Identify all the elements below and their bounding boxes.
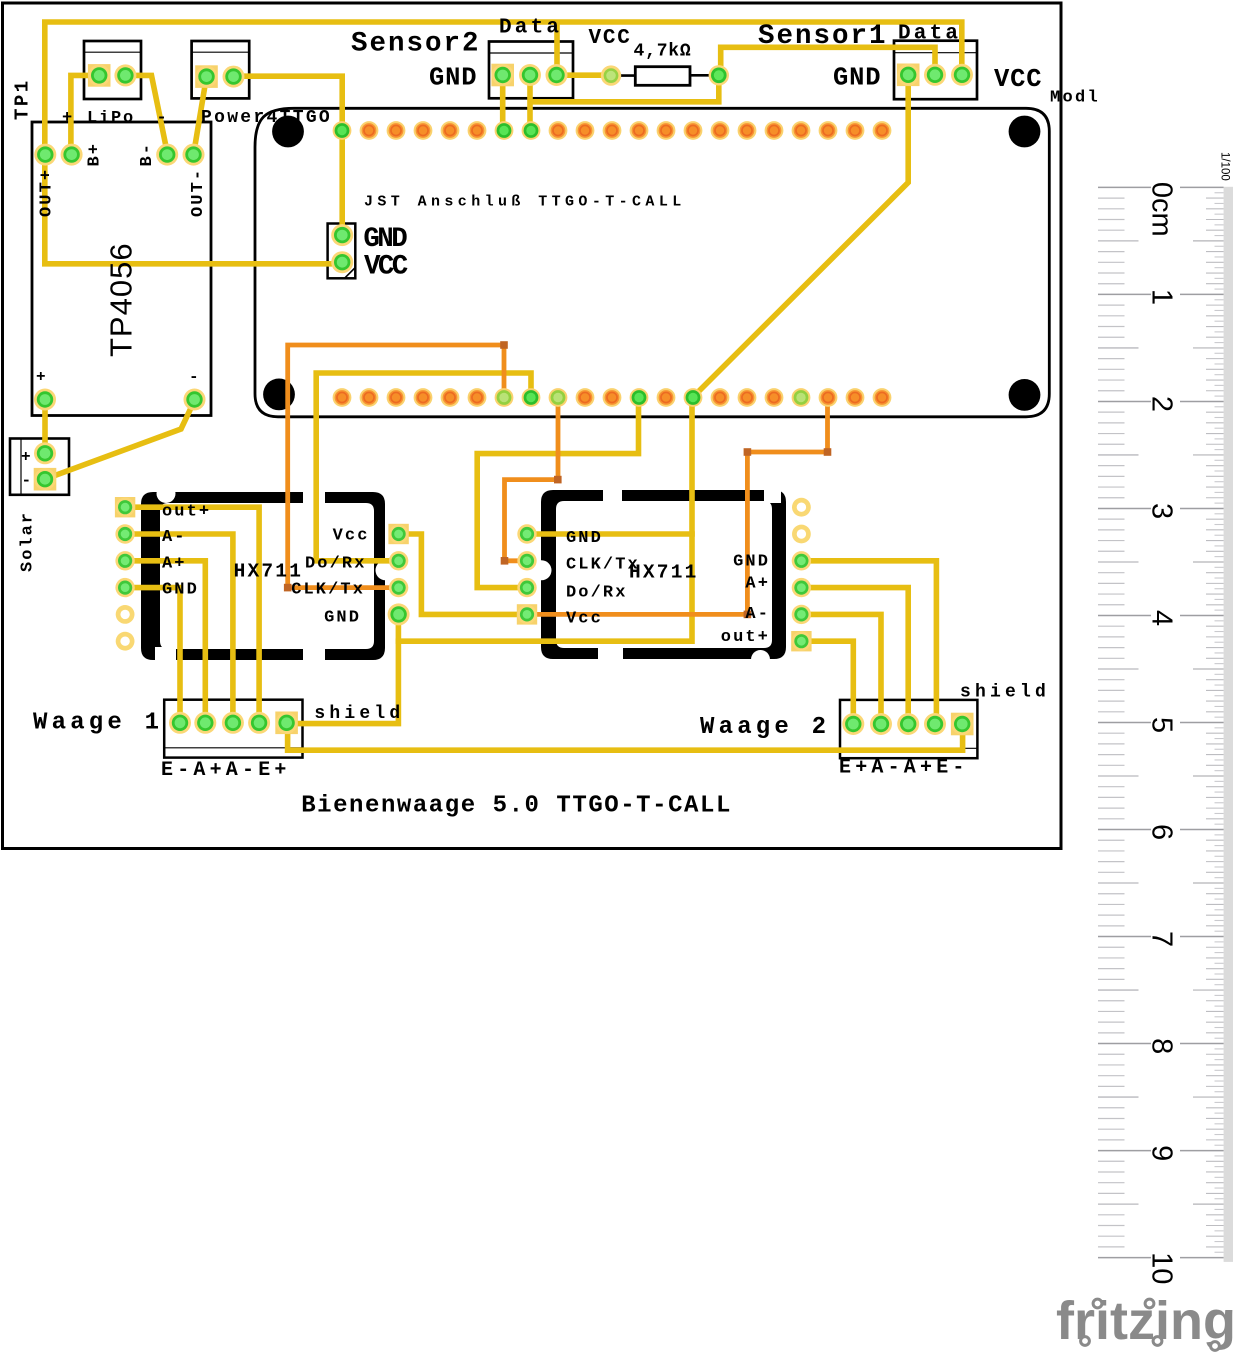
mounting hole top-left — [272, 116, 304, 148]
wire Vcc bridge HX711-1 to HX711-2 — [400, 534, 525, 614]
pad ESP bottom 12 (green) — [630, 388, 649, 407]
wire LiPo pin1 to B+ — [71, 75, 99, 152]
pin TP4056 B+ — [61, 144, 83, 166]
pin Sensor1 pin1 GND — [897, 64, 919, 86]
svg-text:VCC: VCC — [364, 252, 408, 283]
pad ESP top 9 — [549, 121, 568, 140]
svg-text:TP1: TP1 — [12, 78, 34, 120]
svg-text:A+: A+ — [745, 575, 770, 594]
pad ESP bottom 13 — [657, 388, 676, 407]
pad ESP top 14 — [684, 121, 703, 140]
wire Sensor2 pin2 to pad — [527, 77, 533, 131]
pad ESP bottom 5 — [441, 388, 460, 407]
pad ESP top 4 — [414, 121, 433, 140]
pin LiPo pin2 — [114, 64, 136, 86]
junction j5 — [744, 448, 752, 456]
svg-text:Waage 2: Waage 2 — [700, 714, 830, 741]
pad ESP top 12 — [630, 121, 649, 140]
pin Waage2 pin1 — [842, 713, 864, 735]
pad R1 right — [709, 65, 729, 85]
ruler — [1098, 152, 1233, 1284]
junction j4 — [501, 557, 509, 565]
svg-text:out+: out+ — [721, 628, 770, 647]
pad ESP top 20 — [846, 121, 865, 140]
pad square Solar minus — [34, 468, 57, 491]
pin Waage2 pin5 — [951, 713, 973, 735]
pin TP4056 plus — [34, 389, 56, 411]
pad HX711-2 CLK/Tx — [517, 551, 536, 570]
svg-text:0cm: 0cm — [1145, 182, 1177, 237]
pad ESP bottom 17 — [765, 388, 784, 407]
wire HX711-1 GND down to Waage1 shield — [288, 616, 398, 724]
pad square HX1 out+ — [115, 497, 135, 517]
connector Power — [192, 41, 250, 98]
pin Waage1 pin2 — [194, 712, 216, 734]
svg-text:10: 10 — [1145, 1252, 1177, 1284]
pad HX711-2 GND out — [792, 551, 811, 570]
pad ESP top 16 — [738, 121, 757, 140]
wire HX711-2 out+ to Waage2 pin1 — [802, 641, 853, 722]
pad square HX2 Vcc — [517, 604, 537, 624]
resistor R1 body — [635, 67, 690, 86]
pin Power pin2 — [223, 66, 245, 88]
connector Solar — [10, 439, 69, 495]
pin Sensor2 pin2 Data — [519, 64, 541, 86]
mounting hole bottom-left — [263, 379, 295, 411]
pin Waage1 pin3 — [222, 712, 244, 734]
pad ESP top 10 — [576, 121, 595, 140]
svg-text:Power4TTGO: Power4TTGO — [201, 108, 332, 128]
pin Waage2 pin4 — [924, 713, 946, 735]
connector Sensor2 — [489, 42, 573, 99]
svg-text:GND: GND — [162, 581, 199, 600]
wire Power pin2 to JST GND via pad — [235, 76, 342, 235]
wire HX711-1 out+ to Waage1 pin4 — [126, 507, 259, 721]
pad HX711-1 GND — [115, 578, 134, 597]
wire data2 resistor-right upper run to Sensor1 pin2 — [721, 47, 935, 75]
pad square Power pin1 — [195, 65, 218, 88]
pin Sensor2 pin3 VCC — [546, 64, 568, 86]
pin Sensor2 pin1 GND — [492, 64, 514, 86]
fritzing logo — [1056, 1291, 1233, 1351]
wire Sensor2 pin1 to pad — [500, 77, 506, 131]
pad square Waage1 pin5 — [275, 712, 298, 735]
pin Waage1 pin1 — [169, 712, 191, 734]
wire HX711-1 A- to Waage1 pin3 — [126, 534, 233, 721]
svg-text:E-A+A-E+: E-A+A-E+ — [161, 759, 291, 782]
junction j1 — [500, 341, 508, 349]
resistor R1 4.7k leads — [618, 74, 716, 77]
svg-text:3: 3 — [1145, 503, 1177, 519]
pad ESP top 17 — [765, 121, 784, 140]
pad ESP top 1 (green) — [333, 121, 352, 140]
pad square HX1 Vcc — [388, 524, 408, 544]
wire HX711-2 GND row — [529, 531, 692, 537]
pad ESP bottom 21 — [873, 388, 892, 407]
wire VCC top: TP1/OUT+ to Sensor1 pin3 — [45, 22, 962, 264]
svg-text:-: - — [22, 472, 32, 490]
wire HX711-2 GND to Waage2 pin4 — [802, 561, 936, 722]
wire data2 resistor-right lower run — [531, 75, 719, 102]
wire LiPo pin2 to B- — [125, 75, 167, 152]
svg-text:GND: GND — [833, 63, 881, 92]
pin Power pin1 — [196, 66, 218, 88]
pad ESP top 19 — [819, 121, 838, 140]
connector LiPo — [84, 41, 141, 99]
connector Waage 2 — [840, 700, 977, 758]
connector Sensor1 — [894, 41, 977, 99]
pad square LiPo pin1 — [88, 64, 111, 87]
svg-text:4,7kΩ: 4,7kΩ — [634, 41, 692, 61]
svg-text:Sensor1: Sensor1 — [758, 21, 888, 52]
pad HX711-2 GND — [517, 524, 536, 543]
pin Solar minus — [34, 468, 56, 490]
svg-text:-: - — [157, 109, 167, 128]
pad ESP bottom 16 — [738, 388, 757, 407]
svg-text:E+A-A+E-: E+A-A+E- — [839, 756, 969, 779]
mounting hole top-right — [1009, 116, 1041, 148]
pad ESP bottom 20 — [846, 388, 865, 407]
svg-text:VCC: VCC — [994, 65, 1042, 94]
pin Waage1 pin4 — [248, 712, 270, 734]
pad HX711-2 nc2 — [792, 525, 811, 544]
pad square Sensor2 pin1 — [491, 64, 514, 87]
svg-text:B-: B- — [138, 142, 157, 167]
pad ESP bottom 6 — [468, 388, 487, 407]
pad ESP top 3 — [387, 121, 406, 140]
pad square Waage2 pin5 — [951, 713, 974, 736]
pad HX711-1 A+ — [115, 551, 134, 570]
pad HX711-1 A- — [115, 524, 134, 543]
svg-text:2: 2 — [1145, 396, 1177, 412]
svg-text:5: 5 — [1145, 717, 1177, 733]
svg-text:Solar: Solar — [19, 511, 38, 572]
pad ESP top 2 — [360, 121, 379, 140]
junction j2 — [284, 584, 292, 592]
svg-text:out+: out+ — [162, 503, 211, 522]
svg-text:+: + — [62, 109, 72, 128]
pad HX711-1 nc2 — [116, 632, 135, 651]
svg-text:6: 6 — [1145, 824, 1177, 840]
junction j6 — [824, 448, 832, 456]
svg-text:GND: GND — [324, 608, 361, 627]
svg-text:Vcc: Vcc — [333, 527, 370, 546]
connector JST — [328, 224, 356, 279]
svg-text:shield: shield — [314, 704, 404, 724]
pad ESP top 8 (green) — [522, 121, 541, 140]
pin Waage2 pin2 — [870, 713, 892, 735]
pad ESP bottom 1 — [333, 388, 352, 407]
wire GND pad13 vertical to junction — [398, 396, 692, 641]
pad R1 left — [601, 65, 621, 85]
wire Sensor2 pin3 to resistor — [557, 72, 612, 78]
svg-text:shield: shield — [960, 682, 1050, 702]
junction j7 — [744, 611, 752, 619]
svg-text:A-: A- — [162, 528, 187, 547]
pad ESP top 15 — [711, 121, 730, 140]
pad square Sensor1 pin1 — [897, 64, 920, 87]
pin Waage1 pin5 — [276, 712, 298, 734]
svg-text:Vcc: Vcc — [566, 610, 603, 629]
wire TP4056 plus to Solar plus — [42, 400, 48, 454]
svg-text:Waage 1: Waage 1 — [33, 710, 163, 737]
pad ESP bottom 10 — [576, 388, 595, 407]
pad HX711-2 A- — [792, 605, 811, 624]
pin Solar plus — [34, 442, 56, 464]
wire Power pin1 to OUT- — [194, 77, 207, 155]
HX711 module 1 frame — [141, 484, 396, 663]
svg-text:GND: GND — [566, 529, 603, 548]
pad ESP bottom 4 — [414, 388, 433, 407]
svg-text:OUT+: OUT+ — [37, 168, 56, 217]
wire Sensor1 pin1 diagonal to pad — [692, 76, 908, 398]
pin JST GND — [331, 224, 353, 246]
wire orange pad6 to HX711-1 CLK/Tx — [288, 345, 504, 588]
svg-text:7: 7 — [1145, 931, 1177, 947]
pin Waage2 pin3 — [897, 713, 919, 735]
pad ESP top 5 — [441, 121, 460, 140]
wire pad7 to HX711-1 DO/Rx — [316, 373, 531, 561]
connector Waage 1 — [164, 700, 302, 758]
pin TP4056 OUT+ — [34, 144, 56, 166]
svg-text:Data: Data — [499, 17, 562, 40]
svg-text:Do/Rx: Do/Rx — [305, 554, 367, 573]
pad ESP top 11 — [603, 121, 622, 140]
pin JST VCC — [331, 251, 353, 273]
pin LiPo pin1 — [88, 64, 110, 86]
pad HX711-1 out+ — [115, 498, 134, 517]
pin TP4056 OUT- — [183, 144, 205, 166]
svg-text:GND: GND — [733, 552, 770, 571]
svg-text:HX711: HX711 — [234, 561, 304, 583]
junction j3 — [554, 476, 562, 484]
border frame — [3, 3, 1062, 849]
wire orange pad18 to HX711-2 Vcc — [527, 396, 828, 614]
pad HX711-2 DO/Rx — [517, 578, 536, 597]
pad ESP bottom 7 (green) — [495, 388, 514, 407]
svg-text:4: 4 — [1145, 610, 1177, 626]
svg-text:1/100: 1/100 — [1219, 152, 1231, 181]
pad ESP bottom 14 (green) — [684, 388, 703, 407]
svg-text:8: 8 — [1145, 1038, 1177, 1054]
pad ESP bottom 19 — [819, 388, 838, 407]
pad HX711-2 Vcc — [517, 605, 536, 624]
pad ESP bottom 15 — [711, 388, 730, 407]
module TP4056 — [32, 122, 211, 416]
svg-text:Data: Data — [898, 23, 961, 46]
TTGO-T-CALL board outline U1 — [255, 108, 1049, 417]
svg-text:LiPo: LiPo — [87, 109, 135, 128]
wire pad11 to HX711-2 DO/Rx — [477, 396, 638, 588]
svg-text:A+: A+ — [162, 555, 187, 574]
wire VCC drop to Sensor2 pin3 — [554, 25, 560, 73]
pad ESP bottom 11 — [603, 388, 622, 407]
svg-text:+: + — [36, 368, 46, 386]
pin Sensor1 pin3 VCC — [951, 64, 973, 86]
pad ESP bottom 18 (green) — [792, 388, 811, 407]
svg-text:Sensor2: Sensor2 — [351, 29, 481, 60]
pad ESP bottom 8 (green) — [522, 388, 541, 407]
svg-text:GND: GND — [363, 224, 407, 255]
pad HX711-1 Vcc — [389, 524, 408, 543]
wire HX711-2 A- to Waage2 pin2 — [802, 614, 881, 722]
svg-text:Do/Rx: Do/Rx — [566, 583, 628, 602]
pad HX711-1 CLK/Tx — [389, 578, 408, 597]
pad ESP bottom 9 (green) — [549, 388, 568, 407]
svg-text:GND: GND — [429, 64, 477, 93]
svg-text:+: + — [21, 448, 31, 466]
pad ESP bottom 3 — [387, 388, 406, 407]
wire TP4056 minus to Solar minus — [45, 401, 195, 480]
wire HX711-1 A+ to Waage1 pin2 — [126, 561, 205, 721]
pad ESP bottom 2 — [360, 388, 379, 407]
svg-text:CLK/Tx: CLK/Tx — [291, 581, 365, 600]
svg-text:1: 1 — [1145, 289, 1177, 305]
svg-text:B+: B+ — [86, 142, 105, 167]
wire shield bus Waage1 to Waage2 — [288, 724, 963, 750]
mounting hole bottom-right — [1009, 379, 1041, 411]
pad ESP top 13 — [657, 121, 676, 140]
pad HX711-1 DO/Rx — [389, 551, 408, 570]
svg-text:VCC: VCC — [589, 27, 632, 50]
wire HX711-2 A+ to Waage2 pin3 — [802, 588, 908, 722]
pad ESP top 21 — [873, 121, 892, 140]
pad ESP top 7 (green) — [495, 121, 514, 140]
pad ESP top 6 — [468, 121, 487, 140]
pin HX711-1 GND out — [388, 603, 410, 625]
pad HX711-1 nc1 — [116, 605, 135, 624]
pin Sensor1 pin2 Data — [924, 64, 946, 86]
pad ESP top 18 — [792, 121, 811, 140]
svg-text:9: 9 — [1145, 1145, 1177, 1161]
svg-text:TP4056: TP4056 — [104, 242, 139, 357]
pin TP4056 minus — [184, 389, 206, 411]
svg-text:Bienenwaage 5.0 TTGO-T-CALL: Bienenwaage 5.0 TTGO-T-CALL — [301, 793, 732, 820]
pad HX711-2 nc1 — [792, 498, 811, 517]
pin TP4056 B- — [156, 144, 178, 166]
svg-text:JST Anschluß TTGO-T-CALL: JST Anschluß TTGO-T-CALL — [364, 194, 686, 211]
svg-text:Modl: Modl — [1050, 89, 1100, 108]
svg-text:A-: A- — [745, 605, 770, 624]
wire HX711-1 GND to Waage1 pin1 — [126, 588, 180, 721]
svg-text:HX711: HX711 — [629, 561, 699, 583]
pad HX711-2 A+ — [792, 578, 811, 597]
HX711 module 2 frame — [532, 487, 787, 669]
pad HX711-2 out+ — [792, 632, 811, 651]
svg-text:OUT-: OUT- — [189, 168, 208, 217]
wire orange pad8 to HX711-2 CLK/Tx — [505, 396, 559, 561]
svg-text:-: - — [189, 368, 199, 386]
pad square HX2 out+ — [791, 631, 811, 651]
